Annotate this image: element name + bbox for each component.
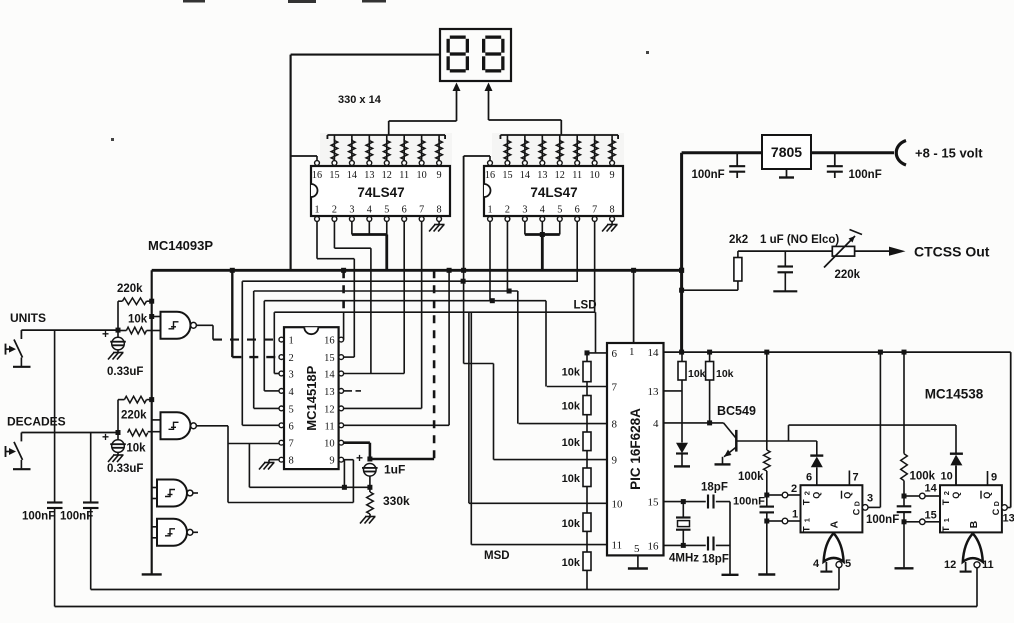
svg-text:MC14518P: MC14518P xyxy=(304,365,319,430)
svg-text:4: 4 xyxy=(367,205,372,216)
svg-text:6: 6 xyxy=(612,348,618,360)
svg-text:8: 8 xyxy=(612,419,618,431)
svg-text:10k: 10k xyxy=(562,401,581,413)
svg-text:5: 5 xyxy=(557,205,562,216)
svg-text:13: 13 xyxy=(324,387,335,398)
svg-text:T: T xyxy=(941,526,952,532)
svg-text:14: 14 xyxy=(324,370,335,381)
svg-text:100nF: 100nF xyxy=(22,511,55,523)
svg-text:220k: 220k xyxy=(117,283,143,295)
svg-text:16: 16 xyxy=(485,170,495,181)
svg-text:10k: 10k xyxy=(562,518,581,530)
svg-text:9: 9 xyxy=(612,455,618,467)
svg-text:11: 11 xyxy=(982,559,994,571)
svg-text:14: 14 xyxy=(520,170,530,181)
svg-text:100nF: 100nF xyxy=(691,169,724,181)
svg-text:12: 12 xyxy=(382,170,392,181)
svg-text:C: C xyxy=(991,508,1001,515)
svg-text:4: 4 xyxy=(813,558,820,570)
svg-text:220k: 220k xyxy=(835,269,861,281)
svg-text:13: 13 xyxy=(364,170,374,181)
svg-text:D: D xyxy=(994,501,1001,506)
svg-text:10: 10 xyxy=(324,439,335,450)
svg-text:2: 2 xyxy=(942,491,951,495)
svg-text:10k: 10k xyxy=(128,314,148,326)
svg-text:12: 12 xyxy=(324,404,335,415)
svg-text:18pF: 18pF xyxy=(702,554,729,566)
svg-text:Q: Q xyxy=(951,492,961,499)
svg-text:15: 15 xyxy=(324,353,335,364)
svg-text:14: 14 xyxy=(925,483,938,495)
svg-text:6: 6 xyxy=(402,205,407,216)
svg-text:1: 1 xyxy=(289,336,294,347)
svg-text:3: 3 xyxy=(349,205,354,216)
svg-text:3: 3 xyxy=(522,205,527,216)
svg-text:2: 2 xyxy=(803,491,812,495)
svg-text:8: 8 xyxy=(289,456,294,467)
svg-text:7: 7 xyxy=(612,382,618,394)
svg-text:100nF: 100nF xyxy=(849,169,882,181)
svg-text:Q: Q xyxy=(843,492,853,499)
svg-text:10: 10 xyxy=(590,170,600,181)
svg-text:11: 11 xyxy=(399,170,409,181)
svg-text:6: 6 xyxy=(289,421,294,432)
svg-text:100nF: 100nF xyxy=(60,511,93,523)
svg-text:10k: 10k xyxy=(688,368,706,380)
svg-text:100k: 100k xyxy=(910,471,936,483)
svg-text:5: 5 xyxy=(634,543,640,555)
svg-text:100k: 100k xyxy=(738,471,764,483)
svg-text:0.33uF: 0.33uF xyxy=(107,463,143,475)
svg-text:15: 15 xyxy=(648,497,660,509)
svg-text:C: C xyxy=(852,508,862,515)
svg-text:MC14538: MC14538 xyxy=(925,387,984,402)
svg-text:+: + xyxy=(102,430,109,444)
svg-text:15: 15 xyxy=(329,170,339,181)
svg-text:5: 5 xyxy=(289,404,294,415)
svg-text:9: 9 xyxy=(991,472,997,484)
svg-text:10k: 10k xyxy=(562,557,581,569)
svg-text:1: 1 xyxy=(629,346,635,358)
svg-text:4: 4 xyxy=(540,205,545,216)
svg-text:BC549: BC549 xyxy=(717,404,756,418)
svg-text:D: D xyxy=(855,501,862,506)
svg-text:15: 15 xyxy=(502,170,512,181)
svg-text:2: 2 xyxy=(289,353,294,364)
svg-text:+: + xyxy=(102,327,109,341)
svg-text:13: 13 xyxy=(648,386,660,398)
svg-text:1: 1 xyxy=(792,509,798,521)
svg-text:74LS47: 74LS47 xyxy=(357,185,404,200)
svg-text:1: 1 xyxy=(487,205,492,216)
svg-text:T: T xyxy=(802,499,813,505)
svg-text:3: 3 xyxy=(289,370,294,381)
svg-text:1 uF (NO Elco): 1 uF (NO Elco) xyxy=(760,234,839,246)
svg-text:6: 6 xyxy=(575,205,580,216)
svg-text:6: 6 xyxy=(806,472,812,484)
svg-text:B: B xyxy=(968,520,980,528)
svg-text:14: 14 xyxy=(347,170,357,181)
svg-text:T: T xyxy=(941,499,952,505)
svg-text:13: 13 xyxy=(1003,513,1014,525)
svg-text:5: 5 xyxy=(384,205,389,216)
svg-text:16: 16 xyxy=(312,170,322,181)
svg-text:10: 10 xyxy=(417,170,427,181)
svg-text:10k: 10k xyxy=(562,473,581,485)
svg-text:4: 4 xyxy=(653,418,659,430)
svg-text:330k: 330k xyxy=(383,494,410,508)
svg-text:18pF: 18pF xyxy=(701,482,728,494)
svg-text:DECADES: DECADES xyxy=(7,415,66,429)
svg-text:2: 2 xyxy=(332,205,337,216)
svg-text:7: 7 xyxy=(853,472,859,484)
svg-text:UNITS: UNITS xyxy=(10,311,46,325)
svg-text:CTCSS Out: CTCSS Out xyxy=(914,244,990,260)
svg-text:5: 5 xyxy=(845,558,851,570)
svg-text:10k: 10k xyxy=(562,367,581,379)
svg-text:9: 9 xyxy=(329,456,334,467)
svg-text:7: 7 xyxy=(419,205,424,216)
svg-text:12: 12 xyxy=(944,559,956,571)
svg-text:13: 13 xyxy=(537,170,547,181)
svg-text:+8 - 15 volt: +8 - 15 volt xyxy=(915,146,983,161)
svg-text:9: 9 xyxy=(437,170,442,181)
svg-text:12: 12 xyxy=(555,170,565,181)
svg-text:100nF: 100nF xyxy=(866,514,899,526)
svg-text:0.33uF: 0.33uF xyxy=(107,366,143,378)
svg-text:11: 11 xyxy=(572,170,582,181)
svg-text:10: 10 xyxy=(612,498,624,510)
svg-text:MC14093P: MC14093P xyxy=(148,238,213,253)
svg-text:14: 14 xyxy=(648,347,660,359)
svg-text:10k: 10k xyxy=(716,368,734,380)
svg-text:1: 1 xyxy=(803,518,812,522)
svg-text:7: 7 xyxy=(592,205,597,216)
svg-text:220k: 220k xyxy=(121,410,147,422)
svg-text:1: 1 xyxy=(314,205,319,216)
svg-text:8: 8 xyxy=(437,205,442,216)
svg-text:2: 2 xyxy=(791,483,797,495)
svg-text:16: 16 xyxy=(648,540,660,552)
svg-text:15: 15 xyxy=(925,510,937,522)
svg-text:PIC 16F628A: PIC 16F628A xyxy=(628,408,643,490)
svg-text:2: 2 xyxy=(505,205,510,216)
svg-text:Q: Q xyxy=(982,492,992,499)
svg-text:74LS47: 74LS47 xyxy=(530,185,577,200)
svg-text:9: 9 xyxy=(610,170,615,181)
svg-text:LSD: LSD xyxy=(574,300,597,312)
svg-text:8: 8 xyxy=(610,205,615,216)
svg-text:7: 7 xyxy=(289,439,294,450)
svg-text:10k: 10k xyxy=(126,443,146,455)
svg-text:100nF: 100nF xyxy=(733,496,765,508)
svg-text:A: A xyxy=(829,520,841,528)
svg-text:7805: 7805 xyxy=(771,144,802,160)
svg-text:2k2: 2k2 xyxy=(729,234,748,246)
svg-text:11: 11 xyxy=(612,540,623,552)
svg-text:10k: 10k xyxy=(562,437,581,449)
svg-text:1uF: 1uF xyxy=(384,463,405,477)
svg-text:10: 10 xyxy=(941,471,953,483)
svg-text:11: 11 xyxy=(324,421,334,432)
svg-text:16: 16 xyxy=(324,336,335,347)
svg-text:4MHz: 4MHz xyxy=(669,553,699,565)
svg-text:+: + xyxy=(356,451,363,465)
svg-text:Q: Q xyxy=(812,492,822,499)
svg-text:MSD: MSD xyxy=(484,550,510,562)
svg-text:3: 3 xyxy=(867,493,873,505)
svg-text:1: 1 xyxy=(942,518,951,522)
svg-text:T: T xyxy=(802,526,813,532)
svg-text:330 x 14: 330 x 14 xyxy=(338,94,382,106)
svg-text:4: 4 xyxy=(289,387,295,398)
